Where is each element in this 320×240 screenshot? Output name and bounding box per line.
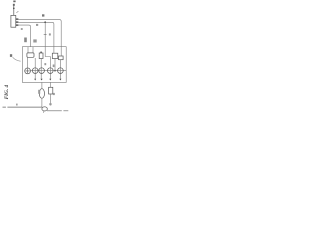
wire D inside xyxy=(45,47,50,80)
drop dot Q5 xyxy=(59,79,61,81)
label 40 xyxy=(10,54,12,57)
label 44 xyxy=(53,93,55,95)
node dot above rect C xyxy=(40,51,42,53)
wire A inside xyxy=(60,47,62,56)
transistor circle Q5 xyxy=(58,68,64,74)
wire B inside xyxy=(54,47,55,71)
label 28 xyxy=(44,63,46,65)
pin 3 stub xyxy=(16,24,19,26)
branch 2 wire lower xyxy=(50,94,52,105)
wire B xyxy=(18,22,54,46)
label 18 xyxy=(21,28,23,30)
wire to circle5 xyxy=(59,60,61,80)
tick on wire D xyxy=(44,34,47,36)
label 22 xyxy=(33,39,36,42)
tick below ellipse xyxy=(43,111,45,112)
ground rail left xyxy=(3,106,43,108)
wire C xyxy=(18,25,30,47)
label 12 leader xyxy=(16,11,18,13)
wire to summer xyxy=(27,57,29,68)
junction dot node B xyxy=(44,21,46,23)
row bus wire xyxy=(31,70,67,72)
transistor circle Q4 xyxy=(48,68,54,74)
block rect E xyxy=(59,56,64,60)
antenna stem xyxy=(13,5,15,15)
transistor circle Q2 xyxy=(32,68,38,74)
drop dot Q3 xyxy=(41,79,43,81)
dashed box enclosure xyxy=(22,47,66,83)
drop dot Q2 xyxy=(34,79,36,81)
ground rail right xyxy=(47,110,68,112)
component box Z1 xyxy=(49,87,53,94)
branch 1 wire lower xyxy=(41,98,43,107)
branch 1 wire upper xyxy=(41,82,43,88)
label 14 xyxy=(36,24,38,26)
wire to circle2 xyxy=(34,58,36,80)
leader arrow to box xyxy=(13,57,21,61)
summer circle xyxy=(25,68,31,74)
pin 2 stub xyxy=(16,21,19,23)
branch 2 wire upper xyxy=(50,82,52,87)
source ellipse on rail xyxy=(42,107,47,111)
wire to circle3 xyxy=(40,59,42,81)
label 48 xyxy=(49,103,51,105)
block rect A xyxy=(27,53,34,57)
rail tick label 50 xyxy=(16,104,18,106)
drop dot Q4 xyxy=(49,79,51,81)
label 46 xyxy=(38,90,40,94)
oscillator box U1 xyxy=(11,15,16,27)
source ellipse V1 xyxy=(39,89,44,99)
label 16 xyxy=(42,14,44,16)
label 32 xyxy=(13,4,15,6)
wire D from node B xyxy=(44,22,46,46)
label 20 xyxy=(24,38,27,43)
label 24 xyxy=(49,33,51,35)
pin 1 stub xyxy=(16,18,19,20)
label 30 top xyxy=(13,1,15,3)
block rect C xyxy=(39,53,43,59)
wire E1 feed xyxy=(27,47,29,53)
svg-text:FIG. 4: FIG. 4 xyxy=(4,84,10,99)
block rect D xyxy=(52,53,58,58)
wire tip xyxy=(50,104,51,105)
junction dot row xyxy=(54,70,56,72)
label 26 xyxy=(53,65,55,68)
transistor circle Q3 xyxy=(39,68,45,74)
node dot on stem xyxy=(13,8,15,10)
wire A xyxy=(18,20,61,47)
summer cross xyxy=(25,69,30,74)
wire E2 feed xyxy=(32,47,34,53)
